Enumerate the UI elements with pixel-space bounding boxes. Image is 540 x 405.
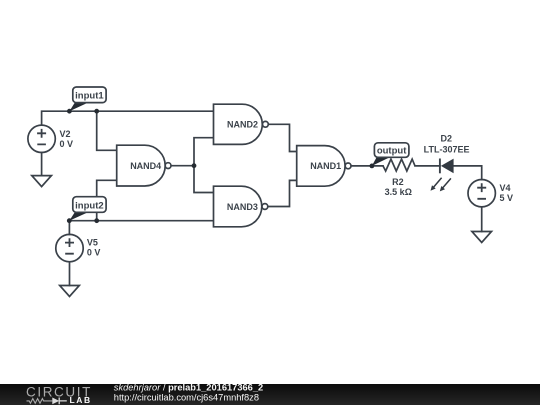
svg-text:NAND1: NAND1: [310, 161, 341, 171]
svg-text:V4: V4: [500, 183, 511, 193]
source V5: [56, 234, 83, 261]
wire R2 to D2: [415, 165, 440, 167]
wire V2 to ground: [41, 153, 43, 176]
op NAND1 gate body: [297, 146, 351, 187]
LED arrow 1: [434, 178, 442, 187]
wire node to NAND2 input B: [194, 138, 214, 166]
svg-text:0 V: 0 V: [87, 248, 101, 258]
svg-text:NAND4: NAND4: [130, 161, 161, 171]
op NAND3 gate body: [214, 186, 268, 227]
resistor R2: [383, 159, 415, 171]
svg-text:input2: input2: [75, 200, 104, 211]
svg-text:LTL-307EE: LTL-307EE: [424, 145, 470, 155]
svg-text:skdehrjaror / prelab1_20161736: skdehrjaror / prelab1_201617366_2: [114, 382, 263, 392]
wire NAND4 input B to input2 net: [97, 180, 117, 220]
wire NAND2 output to NAND1 input A: [268, 124, 296, 151]
wire node to NAND3 input A: [194, 166, 214, 193]
wire D2 to V4: [454, 166, 482, 180]
svg-text:3.5 kΩ: 3.5 kΩ: [385, 187, 412, 197]
node output attach dot: [370, 164, 375, 169]
svg-text:D2: D2: [441, 134, 453, 144]
ground for V2: [32, 176, 52, 187]
svg-text:output: output: [377, 146, 407, 157]
wire NAND3 output to NAND1 input B: [268, 180, 297, 206]
node input2 junction: [94, 218, 99, 223]
node input1 junction: [94, 109, 99, 114]
wire input2 net: [69, 220, 213, 222]
label flag output: [372, 143, 409, 166]
label flag input1: [69, 87, 106, 111]
svg-text:V2: V2: [60, 129, 71, 139]
wire V4 to ground: [481, 207, 483, 232]
node NAND4 output junction: [192, 163, 197, 168]
svg-text:http://circuitlab.com/cj6s47mn: http://circuitlab.com/cj6s47mnhf8z8: [114, 392, 259, 402]
svg-text:0 V: 0 V: [60, 139, 74, 149]
op NAND2 gate body: [214, 104, 269, 144]
LED arrow 2: [443, 178, 451, 187]
wire input1 net: [42, 111, 214, 125]
op NAND4 U-gate body: [117, 145, 171, 186]
source V4: [468, 180, 495, 207]
svg-text:R2: R2: [392, 177, 404, 187]
ground for V4: [472, 232, 492, 243]
svg-text:NAND3: NAND3: [227, 202, 258, 212]
wire input2 to V5: [68, 221, 70, 235]
node input1 attach dot: [67, 109, 72, 114]
source V2: [28, 125, 55, 152]
svg-text:V5: V5: [87, 238, 98, 248]
wire NAND4 output to node: [171, 165, 194, 167]
label flag input2: [69, 197, 106, 221]
ground for V5: [60, 286, 80, 297]
logo resistor-diode glyph: [27, 398, 67, 405]
footer bar: [0, 384, 540, 405]
node input2 attach dot: [67, 218, 72, 223]
svg-text:LAB: LAB: [70, 395, 92, 405]
svg-text:5 V: 5 V: [500, 193, 514, 203]
svg-text:input1: input1: [75, 91, 104, 102]
wire V5 to ground: [69, 262, 71, 286]
svg-text:NAND2: NAND2: [227, 120, 258, 130]
wire node input1 to NAND4 input A: [97, 111, 117, 150]
wire NAND1 output to R2: [351, 165, 383, 167]
diode D2 LED: [431, 159, 454, 192]
